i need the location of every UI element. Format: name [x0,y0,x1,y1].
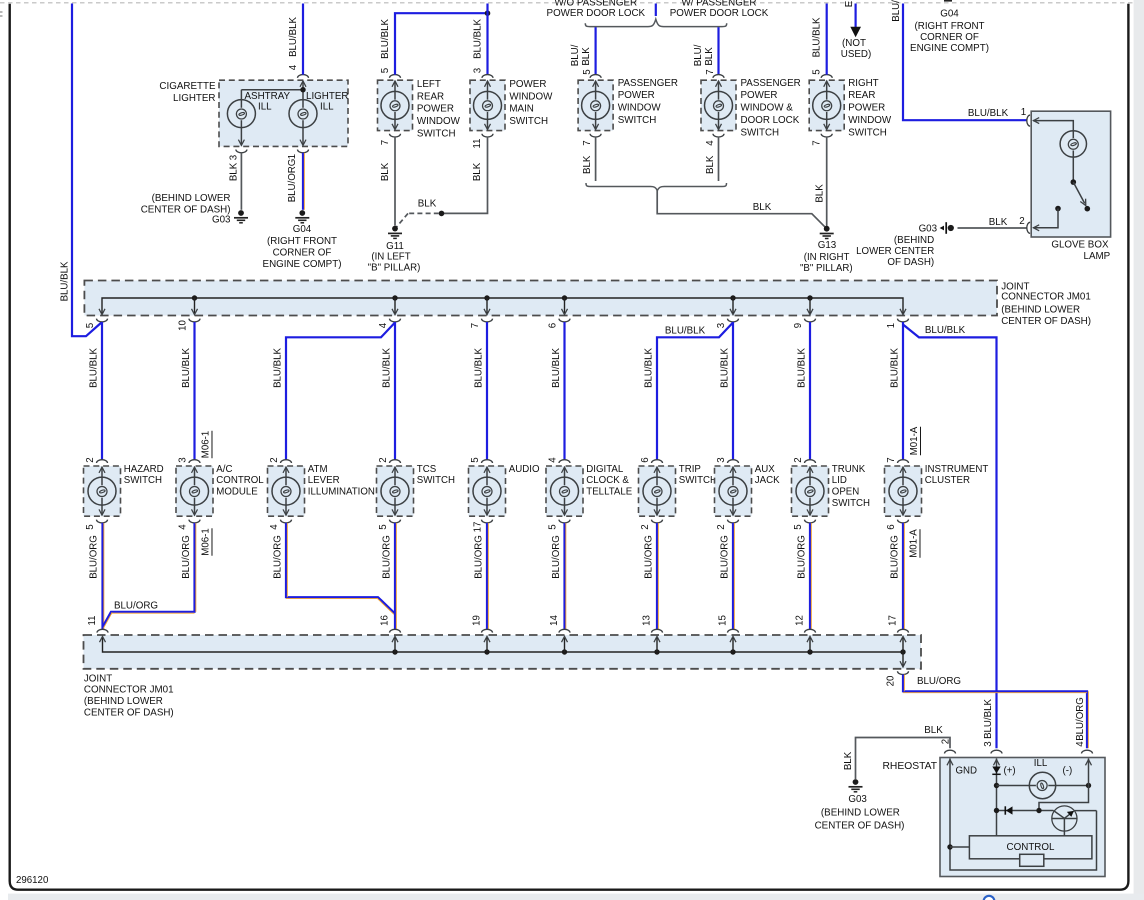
wire BLU/BLK to right rear switch pin 5 [826,4,828,75]
svg-text:(IN LEFT: (IN LEFT [371,252,410,263]
svg-text:TRUNK: TRUNK [832,464,866,475]
label BLU partial [891,0,902,22]
pin 2 label TRIP SWITCH bottom [640,524,651,529]
lamp A/C CONTROL MODULE [176,460,213,523]
svg-text:2: 2 [640,524,651,529]
svg-text:M06-1: M06-1 [201,528,212,555]
svg-text:(-): (-) [1063,766,1073,777]
svg-text:LOWER CENTER: LOWER CENTER [856,246,934,257]
svg-text:HAZARD: HAZARD [124,464,164,475]
wire BLU/BLK to left rear switch pin 5 [395,13,488,74]
label BLU/BLK left rear [380,19,391,59]
label BLU/BLK drop wire [181,348,192,388]
svg-text:(BEHIND LOWER: (BEHIND LOWER [152,193,231,204]
wire BLU/ORG JM01-20 to rheostat pin 4 [903,675,1088,749]
svg-text:(BEHIND LOWER: (BEHIND LOWER [1001,304,1080,315]
svg-text:SWITCH: SWITCH [509,116,548,127]
svg-text:(RIGHT FRONT: (RIGHT FRONT [914,21,984,32]
svg-text:ILLUMINATION: ILLUMINATION [308,487,375,498]
label W/O PASSENGER POWER DOOR LOCK [547,0,646,19]
svg-text:3: 3 [716,457,727,462]
svg-text:SWITCH: SWITCH [832,498,870,509]
svg-text:7: 7 [812,140,823,145]
svg-text:MODULE: MODULE [216,487,258,498]
lamp HAZARD SWITCH [84,460,121,523]
svg-text:BLU/BLK: BLU/BLK [551,348,562,388]
wire not used [854,4,856,28]
svg-text:E: E [844,0,855,7]
svg-text:ILL: ILL [320,101,334,112]
wire BLU/BLK JM01-6 to digital clock [563,322,565,460]
label BLU/ORG drop wire [644,535,655,579]
lamp TRIP SWITCH [639,460,676,523]
label JOINT CONNECTOR JM01 behind lower center of dash (top) [1001,281,1091,327]
diagram number 296120 [16,875,49,886]
svg-text:CORNER OF: CORNER OF [920,32,979,43]
wire BLU/ORG A/C module to JM01-11 [103,523,196,627]
svg-text:SWITCH: SWITCH [618,115,657,126]
svg-text:PASSENGER: PASSENGER [741,78,801,89]
wire BLU/ORG aux jack to JM01-15 [733,523,734,629]
svg-text:BLK: BLK [843,751,854,770]
pin 4 label passenger door lock switch [705,140,716,146]
svg-text:296120: 296120 [16,875,49,886]
lamp PASSENGER POWER WINDOW SWITCH [578,75,613,137]
label BLU/ORG drop wire [181,535,192,579]
label RIGHT REAR POWER WINDOW SWITCH [848,78,892,139]
wire BLU/ORG trunk lid switch to JM01-12 [810,523,811,629]
pin 17 label JM01 bottom bus [888,615,899,626]
svg-text:TCS: TCS [417,464,437,475]
wire BLU/BLK to cigarette lighter pin 4 [302,4,304,75]
wire BLU/ORG TCS switch to JM01-16 [395,523,396,629]
pin 3 label JM01 top bus [716,323,727,328]
svg-text:BLK: BLK [705,155,716,174]
label M06-1 top [201,431,212,458]
wire BLU/ORG cigarette lighter pin 1 to G04 [303,153,304,210]
svg-text:(BEHIND LOWER: (BEHIND LOWER [84,696,163,707]
node G03 reference [940,222,954,234]
svg-text:2: 2 [716,524,727,529]
label 3 BLU/BLK rheostat [983,699,994,747]
wire BLU/BLK stub to brace [655,4,657,17]
label CIGARETTE LIGHTER [159,81,216,104]
wire BLK cigarette lighter pin 3 to G03 [240,153,242,210]
label LIGHTER ILL [306,91,348,112]
wire BLU/BLK JM01-1 to instrument cluster [902,322,904,460]
svg-text:CLOCK &: CLOCK & [586,475,629,486]
svg-text:WINDOW &: WINDOW & [741,103,794,114]
label BLK main switch [472,162,483,181]
svg-text:4: 4 [269,524,280,530]
label BLU/BLK drop wire [720,348,731,388]
pin 19 label JM01 bottom bus [472,615,483,626]
svg-text:BLU/BLK: BLU/BLK [665,325,706,336]
lamp GLOVE BOX LAMP with switch [1027,111,1111,237]
label (-) [1063,766,1073,777]
lamp CIGARETTE LIGHTER (ashtray ill + lighter ill) [219,75,348,153]
lamp AUX JACK [715,460,752,523]
label BLU/BLK passenger switch [570,44,592,66]
label BLU/ORG drop wire [797,535,808,579]
pin 3 label main switch [473,68,484,73]
pin 7 label passenger switch [582,140,593,145]
svg-text:(BEHIND LOWER: (BEHIND LOWER [821,808,900,819]
svg-text:POWER DOOR LOCK: POWER DOOR LOCK [547,8,646,19]
svg-text:BLU/: BLU/ [891,0,902,22]
bottom gray gutter [8,894,1144,900]
svg-text:WINDOW: WINDOW [618,103,662,114]
svg-text:DOOR LOCK: DOOR LOCK [741,115,800,126]
svg-text:BLU/BLK: BLU/BLK [983,699,994,739]
label ILL [1034,758,1048,769]
label HAZARD SWITCH [124,464,164,486]
svg-text:G03: G03 [919,223,938,234]
left edge cut dashes [0,12,3,16]
label TRUNK LID OPEN SWITCH [832,464,870,509]
svg-text:BLK: BLK [472,162,483,181]
label BLU/ORG drop wire [551,535,562,579]
svg-text:SWITCH: SWITCH [848,127,887,138]
svg-text:BLU/BLK: BLU/BLK [273,348,284,388]
pin 2 label rheostat [941,739,952,744]
svg-text:7: 7 [582,140,593,145]
svg-text:BLU/ORG: BLU/ORG [551,535,562,579]
label AUX JACK [755,464,780,486]
label BLU/ORG drop wire [382,535,393,579]
svg-text:LEVER: LEVER [308,475,340,486]
svg-text:WINDOW: WINDOW [509,91,553,102]
svg-text:4: 4 [378,322,389,328]
svg-text:6: 6 [548,323,559,328]
svg-text:BLU/BLK: BLU/BLK [60,261,71,301]
svg-text:BLK: BLK [581,47,592,66]
wire BLU/ORG instrument cluster to JM01-17 [903,523,904,629]
svg-text:BLU/BLK: BLU/BLK [474,348,485,388]
pin 5 label DIGITAL CLOCK & TELLTALE bottom [548,524,559,529]
svg-text:4: 4 [705,140,716,146]
pin 16 label JM01 bottom bus [380,615,391,626]
svg-text:7: 7 [380,140,391,145]
label BLU/BLK left feed [60,261,71,301]
pin 3 label AUX JACK top [716,457,727,462]
svg-text:1: 1 [1021,107,1026,118]
label BLK vertical [843,751,854,770]
svg-text:POWER: POWER [509,79,546,90]
svg-text:9: 9 [793,323,804,328]
junction BLK [439,211,445,217]
label E (cut) [844,0,855,7]
pin 2 label HAZARD SWITCH top [85,457,96,462]
label PASSENGER POWER WINDOW SWITCH [618,78,678,126]
label (+) [1004,766,1016,777]
svg-text:17: 17 [473,522,484,533]
svg-text:WINDOW: WINDOW [417,116,461,127]
svg-text:CENTER OF DASH): CENTER OF DASH) [1001,316,1091,327]
svg-text:BLU/BLK: BLU/BLK [644,348,655,388]
wire BLU/BLK JM01-5 to hazard switch [101,322,103,460]
svg-text:BLU/BLK: BLU/BLK [380,19,391,59]
pin 5 label right rear [812,69,823,74]
svg-text:POWER: POWER [417,104,454,115]
wire BLU/ORG hazard switch to JM01-11 [103,523,104,629]
label GLOVE BOX LAMP [1051,240,1110,262]
ground G04 (top) [295,210,309,223]
pin 15 label JM01 bottom bus [718,615,729,626]
wire BLU/ORG trip switch to JM01-13 [657,523,658,629]
svg-text:SWITCH: SWITCH [679,475,717,486]
wire BLU/BLK JM01-9 to trunk lid switch [809,322,811,460]
svg-text:TRIP: TRIP [679,464,701,475]
pin 4 label A/C CONTROL MODULE bottom [178,524,189,530]
svg-text:SWITCH: SWITCH [417,129,456,140]
svg-text:19: 19 [472,615,483,626]
svg-text:BLU/ORG: BLU/ORG [114,601,158,612]
bottom blue icon [984,896,995,900]
svg-text:BLU/BLK: BLU/BLK [382,348,393,388]
svg-text:BLU/ORG: BLU/ORG [890,535,901,579]
label BLU/BLK drop wire [551,348,562,388]
svg-text:PASSENGER: PASSENGER [618,78,678,89]
svg-text:5: 5 [812,69,823,74]
label G04 right front corner of engine compt [263,224,342,270]
svg-text:5: 5 [85,524,96,529]
svg-text:4: 4 [1075,741,1086,747]
pin 2 label glove box [1019,216,1024,227]
svg-text:CONTROL: CONTROL [1007,842,1055,853]
svg-text:BLU/BLK: BLU/BLK [968,108,1009,119]
svg-text:ILL: ILL [1034,758,1048,769]
svg-text:BLU/ORG: BLU/ORG [287,159,298,203]
label BLU/BLK drop wire [474,348,485,388]
wire BLU/BLK ATM lever to JM01-4 [286,323,395,460]
pin 3 label [228,155,239,160]
svg-text:LIGHTER: LIGHTER [173,93,215,104]
lamp POWER WINDOW MAIN SWITCH [470,75,505,137]
svg-text:5: 5 [548,524,559,529]
svg-text:BLU/BLK: BLU/BLK [925,325,966,336]
wire BLU/BLK JM01-10 to A/C control module [193,322,195,460]
label BLU/ORG [287,159,298,203]
label G03 behind lower center of dash (mid right) [856,223,937,268]
svg-text:POWER: POWER [618,90,655,101]
pin 4 label JM01 top bus [378,322,389,328]
svg-text:"B" PILLAR): "B" PILLAR) [368,263,421,274]
svg-text:6: 6 [640,457,651,462]
label G03 behind lower center of dash (bottom) [815,794,905,831]
wire BLU/BLK vertical from top [486,4,488,75]
label POWER WINDOW MAIN SWITCH [509,79,553,127]
pin 12 label JM01 bottom bus [795,615,806,626]
svg-text:LID: LID [832,475,847,486]
pin 1 label JM01 top bus [886,323,897,328]
wire BLU/BLK JM01-3 to aux jack [732,322,734,460]
svg-text:7: 7 [886,457,897,462]
svg-text:ATM: ATM [308,464,328,475]
svg-text:5: 5 [85,323,96,328]
svg-text:2: 2 [793,457,804,462]
lamp RIGHT REAR POWER WINDOW SWITCH [809,75,844,137]
pin 13 label JM01 bottom bus [642,615,653,626]
svg-text:BLU/ORG: BLU/ORG [474,535,485,579]
svg-text:OPEN: OPEN [832,487,859,498]
svg-text:2: 2 [269,457,280,462]
pin 5 label JM01 top bus [85,323,96,328]
svg-text:BLK: BLK [989,217,1008,228]
svg-text:20: 20 [886,675,897,686]
pin 7 label passenger door lock switch [705,69,716,74]
svg-text:G03: G03 [848,794,867,805]
svg-text:2: 2 [941,739,952,744]
label BLU/ORG drop wire [890,535,901,579]
svg-text:USED): USED) [841,49,871,60]
svg-text:BLU/ORG: BLU/ORG [917,676,961,687]
label BLU/ORG rheostat feed [917,676,961,687]
svg-text:11: 11 [472,138,483,148]
junction node top [485,10,491,16]
svg-text:(+): (+) [1004,766,1016,777]
svg-text:BLU/ORG: BLU/ORG [181,535,192,579]
label BLK passenger switch [582,155,593,174]
pin 6 label INSTRUMENT CLUSTER bottom [886,524,897,529]
wire BLK passenger switch pin 7 [595,137,597,181]
bus JOINT CONNECTOR JM01 (bottom) [84,629,922,674]
svg-text:POWER: POWER [741,90,778,101]
svg-text:GLOVE BOX: GLOVE BOX [1051,240,1109,251]
svg-text:4: 4 [288,64,299,70]
label BLU/BLK drop wire [89,348,100,388]
label ATM LEVER ILLUMINATION [308,464,375,498]
svg-text:CENTER OF DASH): CENTER OF DASH) [84,708,174,719]
svg-text:JOINT: JOINT [1001,281,1029,292]
pin 2 label ATM LEVER ILLUMINATION top [269,457,280,462]
pin 3 label A/C CONTROL MODULE top [178,457,189,462]
pin 6 label JM01 top bus [548,323,559,328]
pin 4 label ATM LEVER ILLUMINATION bottom [269,524,280,530]
label G03 behind lower center of dash [141,193,231,226]
svg-text:7: 7 [705,69,716,74]
svg-text:M06-1: M06-1 [201,431,212,458]
pin 2 label AUX JACK bottom [716,524,727,529]
label BLK passenger door lock switch [705,155,716,174]
ground G03 (top) [234,210,248,223]
label BLK rheostat gnd [924,725,943,736]
svg-text:SWITCH: SWITCH [124,475,162,486]
label BLK right rear [815,184,826,203]
svg-text:BLU/ORG: BLU/ORG [644,535,655,579]
svg-text:BLK: BLK [418,199,437,210]
svg-text:BLU/BLK: BLU/BLK [720,348,731,388]
svg-text:BLU/ORG: BLU/ORG [89,535,100,579]
svg-text:BLU/BLK: BLU/BLK [473,19,484,59]
svg-text:ENGINE COMPT): ENGINE COMPT) [910,43,989,54]
lamp DIGITAL CLOCK & TELLTALE [546,460,583,523]
pin 7 label JM01 top bus [470,323,481,328]
label DIGITAL CLOCK & TELLTALE [586,464,632,498]
pin 11 label main switch [472,138,483,148]
pin 4 label cigarette lighter [288,64,299,70]
pin 5 label TCS SWITCH bottom [378,524,389,529]
svg-text:JACK: JACK [755,475,780,486]
label BLU/ORG drop wire [89,535,100,579]
svg-text:BLU/BLK: BLU/BLK [181,348,192,388]
svg-text:ENGINE COMPT): ENGINE COMPT) [263,259,342,270]
svg-text:SWITCH: SWITCH [417,475,455,486]
ground G03 (bottom) [849,779,863,792]
svg-text:3: 3 [983,741,994,746]
svg-text:G04: G04 [293,224,312,235]
svg-text:BLU/ORG: BLU/ORG [1075,697,1086,741]
label BLU/BLK passenger door lock switch [693,44,715,66]
lamp TCS SWITCH [377,460,414,523]
svg-text:BLK: BLK [582,155,593,174]
svg-text:(NOT: (NOT [842,38,866,49]
wire BLU/BLK from G04 corner to glove box pin 1 [903,4,1027,121]
label BLU/ORG drop wire [273,535,284,579]
svg-text:GND: GND [956,765,978,776]
wire BLU/ORG audio to JM01-19 [487,523,488,629]
pin 17 label AUDIO bottom [473,522,484,533]
wire BLU/BLK trip switch to JM01-3 [657,323,733,460]
label BLU/ORG drop wire [474,535,485,579]
svg-text:BLU/ORG: BLU/ORG [273,535,284,579]
svg-text:G04: G04 [940,9,959,20]
svg-text:BLU/BLK: BLU/BLK [89,348,100,388]
svg-text:LAMP: LAMP [1084,251,1111,262]
brace joiner bottom [586,183,727,191]
wire BLU/ORG ATM lever to JM01-16 [286,523,395,615]
svg-text:BLU/BLK: BLU/BLK [812,17,823,57]
svg-text:2: 2 [378,457,389,462]
svg-text:6: 6 [886,524,897,529]
label BLU/BLK main switch [473,19,484,59]
svg-text:INSTRUMENT: INSTRUMENT [925,464,989,475]
svg-text:DIGITAL: DIGITAL [586,464,624,475]
label BLU/BLK drop wire [797,348,808,388]
svg-text:G11: G11 [386,241,404,252]
label M01-A bottom [909,529,920,558]
svg-text:WINDOW: WINDOW [848,115,892,126]
svg-text:POWER: POWER [848,103,885,114]
pin 10 label JM01 top bus [178,320,189,331]
svg-text:16: 16 [380,615,391,626]
wire BLK right rear switch pin 7 to G13 [826,137,828,226]
svg-text:SWITCH: SWITCH [741,127,780,138]
label A/C CONTROL MODULE [216,464,264,498]
svg-text:3: 3 [178,457,189,462]
label BLU/BLK drop wire [382,348,393,388]
svg-text:5: 5 [793,524,804,529]
bus JOINT CONNECTOR JM01 (top) [84,281,997,322]
wire BLU/ORG digital clock to JM01-14 [565,523,566,629]
pin 6 label TRIP SWITCH top [640,457,651,462]
svg-text:10: 10 [178,320,189,331]
svg-text:1: 1 [886,323,897,328]
svg-text:11: 11 [87,615,98,625]
label BLU/BLK rheostat feed [925,325,966,336]
svg-text:CLUSTER: CLUSTER [925,475,970,486]
svg-text:BLK: BLK [704,47,715,66]
lamp ATM LEVER ILLUMINATION [268,460,305,523]
pin 5 label passenger switch [582,69,593,74]
label W/ PASSENGER POWER DOOR LOCK [670,0,769,19]
svg-text:CENTER OF DASH): CENTER OF DASH) [141,204,231,215]
svg-text:BLK: BLK [380,162,391,181]
brace splitter top [585,19,726,26]
label JOINT CONNECTOR JM01 behind lower center of dash (bottom) [84,673,174,718]
lamp INSTRUMENT CLUSTER [885,460,922,523]
pin 5 label left rear switch [380,68,391,73]
